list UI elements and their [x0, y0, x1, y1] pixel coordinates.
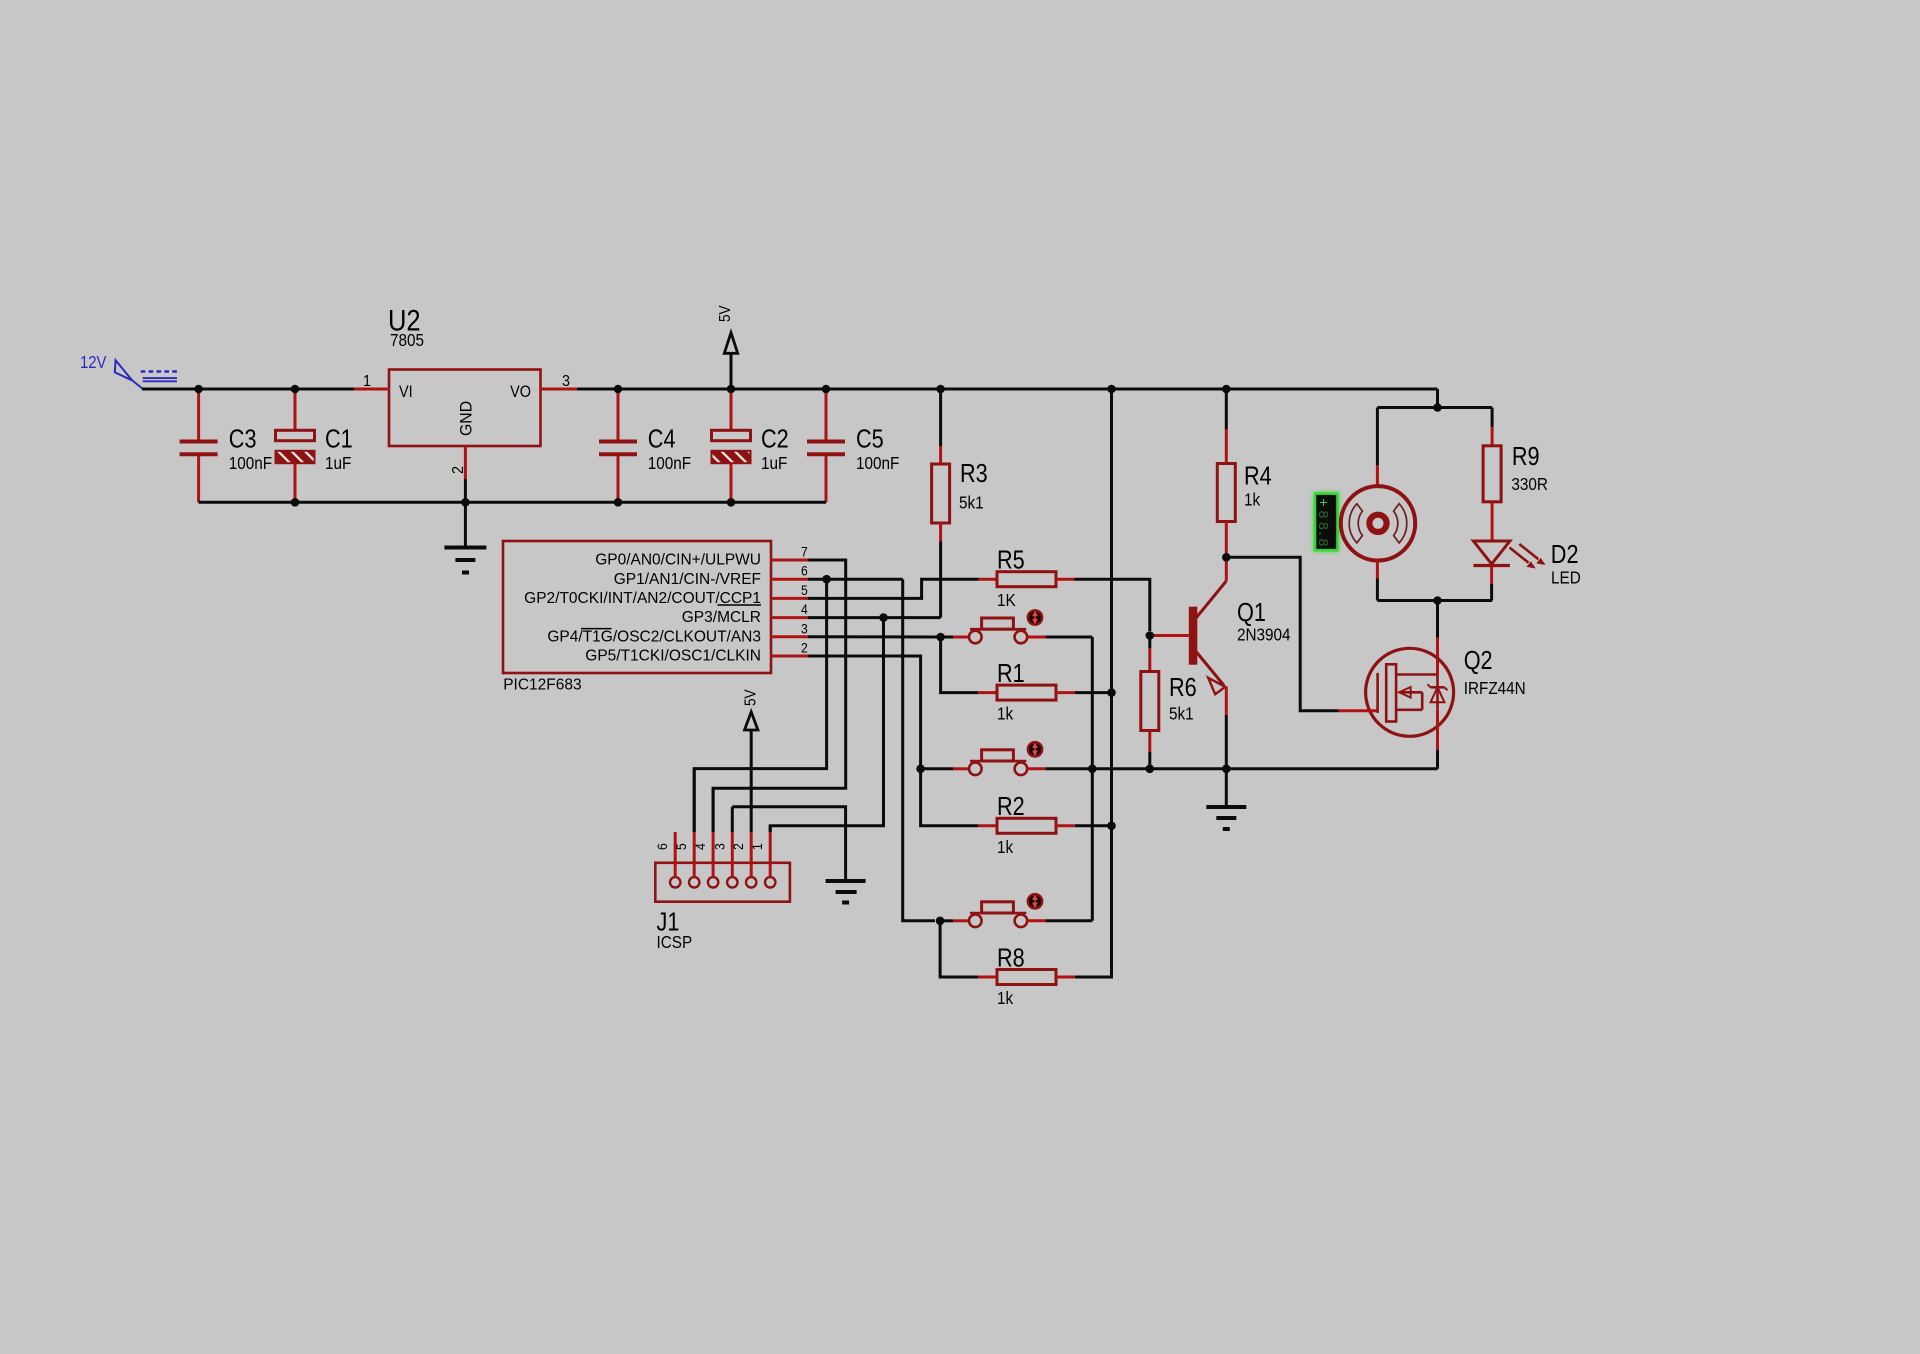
pin 3 of U2: [541, 388, 578, 391]
transistor Q2 IRFZ44N (MOSFET): [1339, 601, 1526, 769]
svg-text:1k: 1k: [997, 837, 1014, 857]
svg-text:6: 6: [655, 843, 671, 850]
svg-text:1k: 1k: [1244, 489, 1261, 509]
wire R5 to Q1 base node: [1075, 579, 1150, 631]
motor M1: [1341, 408, 1415, 601]
svg-text:R2: R2: [997, 794, 1025, 822]
pin 3 of PIC12F683 (GP4/T1G/OSC2/CLKOUT/AN3): [547, 621, 808, 646]
svg-text:100nF: 100nF: [856, 453, 899, 473]
wire U2 VO to 5V rail: [577, 388, 1438, 391]
pin 5 of PIC12F683 (GP2/T0CKI/INT/AN2/COUT/CCP1): [524, 582, 808, 607]
node U2 GND: [461, 498, 470, 507]
svg-text:R8: R8: [997, 945, 1025, 973]
svg-text:R1: R1: [997, 660, 1025, 688]
svg-text:5k1: 5k1: [959, 492, 984, 512]
svg-text:5V: 5V: [743, 689, 760, 706]
svg-text:1: 1: [363, 372, 371, 390]
ground symbol under U2: [444, 502, 486, 572]
node button1 left: [936, 633, 945, 642]
svg-text:GP1/AN1/CIN-/VREF: GP1/AN1/CIN-/VREF: [614, 571, 761, 588]
power symbol 5V (main rail): [717, 305, 738, 389]
push button 2: [921, 742, 1046, 775]
svg-text:1uF: 1uF: [325, 453, 351, 473]
svg-text:LED: LED: [1551, 567, 1581, 587]
svg-text:2N3904: 2N3904: [1237, 624, 1291, 644]
svg-text:R4: R4: [1244, 463, 1272, 491]
capacitor C2 (polarized): [712, 389, 789, 502]
svg-text:1k: 1k: [997, 988, 1014, 1008]
svg-text:2: 2: [731, 843, 747, 850]
wire ground row: [1046, 767, 1438, 770]
transistor Q1 2N3904: [1150, 557, 1291, 769]
svg-text:ICSP: ICSP: [657, 932, 693, 952]
pin 6 of PIC12F683 (GP1/AN1/CIN-/VREF): [614, 563, 808, 588]
svg-text:C1: C1: [325, 426, 353, 454]
wire GP5 (pin2) to button2: [808, 656, 921, 769]
wire ICSP pin4 riser: [712, 788, 715, 832]
svg-text:5: 5: [674, 843, 690, 850]
wire R2 right to 5V bus: [1075, 824, 1112, 827]
wire motor top bus: [1377, 406, 1492, 409]
node R6 bottom: [1146, 765, 1155, 774]
resistor R8: [978, 945, 1075, 1009]
wire ICSP pin1 riser: [769, 826, 772, 832]
LED D2: [1473, 541, 1580, 601]
svg-text:R3: R3: [960, 460, 988, 488]
svg-text:12V: 12V: [80, 353, 107, 372]
node R2/5V bus: [1107, 822, 1116, 831]
resistor R2: [978, 794, 1075, 858]
svg-text:6: 6: [801, 563, 808, 579]
resistor R4: [1217, 389, 1271, 557]
svg-text:PIC12F683: PIC12F683: [503, 677, 581, 694]
svg-text:GP4/T1G/OSC2/CLKOUT/AN3: GP4/T1G/OSC2/CLKOUT/AN3: [547, 628, 761, 645]
wire 5V rail corner to motor bus: [1436, 389, 1439, 408]
svg-text:Q1: Q1: [1237, 599, 1266, 627]
resistor R3: [932, 389, 988, 542]
svg-text:330R: 330R: [1511, 474, 1548, 494]
wire GP1 to ICSP pin5: [694, 579, 826, 832]
svg-text:1uF: 1uF: [761, 453, 787, 473]
svg-text:1k: 1k: [997, 703, 1014, 723]
wire buttons right to ground bus: [1091, 637, 1094, 921]
power symbol 5V (ICSP): [743, 689, 760, 832]
svg-text:GP0/AN0/CIN+/ULPWU: GP0/AN0/CIN+/ULPWU: [595, 552, 761, 569]
wire GP2 (pin5) to R5: [808, 579, 979, 598]
node 5V bus for pullups: [1107, 385, 1116, 394]
pin 1 of J1: [750, 832, 771, 877]
svg-text:+: +: [1314, 498, 1330, 506]
overline T1G: [581, 628, 612, 630]
resistor R6: [1141, 636, 1197, 769]
svg-text:2: 2: [449, 466, 467, 474]
resistor R1: [978, 660, 1075, 724]
pin 4 of PIC12F683 (GP3/MCLR): [682, 601, 808, 626]
wire motor bottom bus: [1377, 599, 1492, 602]
pin 2 of PIC12F683 (GP5/T1CKI/OSC1/CLKIN): [585, 640, 808, 665]
node C1 bottom: [291, 498, 300, 507]
node C1 top: [291, 385, 300, 394]
node C4 bottom: [614, 498, 623, 507]
ground symbol near ICSP: [826, 881, 866, 903]
svg-text:3: 3: [562, 372, 570, 390]
node button3 left: [936, 917, 945, 926]
node C4 top: [614, 385, 623, 394]
wire button1 node down to R1: [941, 637, 978, 693]
node C2/5V top: [727, 385, 736, 394]
wire Q1 collector to Q2 gate: [1226, 557, 1338, 710]
svg-text:8: 8: [1314, 510, 1330, 518]
pin 3 of J1: [712, 832, 733, 877]
svg-text:100nF: 100nF: [229, 453, 272, 473]
svg-text:R9: R9: [1512, 443, 1540, 471]
svg-text:GP5/T1CKI/OSC1/CLKIN: GP5/T1CKI/OSC1/CLKIN: [585, 648, 761, 665]
svg-text:1: 1: [750, 843, 766, 850]
svg-text:Q2: Q2: [1464, 647, 1493, 675]
svg-text:7805: 7805: [390, 330, 424, 350]
svg-text:2: 2: [801, 640, 808, 656]
wire GP3/MCLR (pin4) row: [808, 616, 941, 619]
pin 5 of J1: [674, 832, 695, 877]
capacitor C4: [599, 389, 691, 502]
node Q1 emitter/ground: [1222, 765, 1231, 774]
voltage regulator U2 7805: [354, 304, 577, 479]
ground symbol near buttons/Q1: [1206, 769, 1246, 829]
svg-text:1K: 1K: [997, 590, 1016, 610]
7-segment display +88.8: [1314, 494, 1338, 551]
wire GP1 down to button3: [903, 579, 935, 921]
node Q1 base: [1146, 631, 1155, 640]
overline MCLR: [718, 604, 762, 606]
wire ICSP pin3 riser: [731, 807, 734, 832]
node R4 top: [1222, 385, 1231, 394]
wire GP1 (pin6) row: [808, 578, 903, 581]
wire R1 right to 5V bus: [1075, 691, 1112, 694]
svg-text:R5: R5: [997, 547, 1025, 575]
node button2 left: [916, 765, 925, 774]
wire MCLR to ICSP pin1: [770, 618, 883, 832]
wire 12V rail from input to U2 VI: [142, 388, 354, 391]
svg-text:IRFZ44N: IRFZ44N: [1464, 678, 1526, 698]
svg-text:5V: 5V: [717, 305, 734, 322]
wire button3 node down to R8: [940, 921, 978, 977]
svg-text:7: 7: [801, 544, 808, 560]
connector J1 ICSP: [655, 863, 790, 953]
node R1/5V bus: [1107, 688, 1116, 697]
svg-text:C2: C2: [761, 426, 789, 454]
wire button2 node down to R2: [921, 769, 978, 826]
wire GP0 (pin7) to ICSP pin4: [713, 560, 846, 832]
svg-text:C4: C4: [648, 426, 676, 454]
svg-text:R6: R6: [1169, 674, 1197, 702]
node GP1 branch: [822, 575, 831, 584]
svg-text:C5: C5: [856, 426, 884, 454]
svg-text:GND: GND: [457, 401, 476, 436]
push button 3: [940, 894, 1092, 927]
svg-text:5k1: 5k1: [1169, 703, 1194, 723]
wire GP4 (pin3) to button1: [808, 635, 937, 638]
pin 2 of J1: [731, 832, 752, 877]
pin 7 of PIC12F683 (GP0/AN0/CIN+/ULPWU): [595, 544, 808, 569]
node MCLR branch: [879, 613, 888, 622]
capacitor C5: [807, 389, 899, 502]
wire R8 right to 5V bus: [1075, 826, 1112, 977]
node buttons/ground row: [1088, 765, 1097, 774]
node R3 top: [936, 385, 945, 394]
node Q1 collector / R4 bottom: [1222, 553, 1231, 562]
capacitor C3: [180, 389, 273, 502]
svg-text:3: 3: [801, 621, 808, 637]
svg-text:100nF: 100nF: [648, 453, 691, 473]
svg-text:4: 4: [692, 843, 708, 850]
svg-text:VI: VI: [399, 383, 413, 401]
wire 5V bus vertical: [1110, 389, 1113, 826]
svg-text:VO: VO: [510, 383, 531, 401]
svg-text:GP3/MCLR: GP3/MCLR: [682, 609, 761, 626]
node motor/R9 top bus: [1433, 403, 1442, 412]
node C5 top: [822, 385, 831, 394]
input terminal 12V (blue): [80, 353, 178, 389]
pin 2 of U2: [464, 446, 467, 479]
pin 4 of J1: [692, 832, 713, 877]
svg-text:C3: C3: [229, 426, 257, 454]
resistor R5: [979, 547, 1075, 611]
push button 1: [941, 610, 1093, 643]
svg-text:3: 3: [712, 843, 728, 850]
svg-text:4: 4: [801, 601, 808, 617]
pin 6 of J1: [655, 832, 676, 877]
capacitor C1 (polarized): [276, 389, 353, 502]
wire ICSP pin3 to ground: [732, 807, 845, 881]
svg-text:8: 8: [1314, 538, 1330, 546]
svg-text:D2: D2: [1551, 541, 1579, 569]
svg-text:.: .: [1314, 529, 1330, 537]
node C3 top: [194, 385, 203, 394]
pin 1 of U2: [354, 388, 389, 391]
resistor R9: [1483, 408, 1548, 542]
microcontroller U1 PIC12F683: [503, 541, 771, 694]
wire MCLR up to R3 bottom: [939, 542, 942, 618]
wire U2 GND pin to ground rail: [464, 479, 467, 502]
svg-text:5: 5: [801, 582, 808, 598]
node Q2 drain / bottom bus: [1433, 596, 1442, 605]
wire ground rail under capacitors: [199, 501, 826, 504]
node C2 bottom: [727, 498, 736, 507]
wire ICSP pin5 riser: [693, 769, 696, 832]
